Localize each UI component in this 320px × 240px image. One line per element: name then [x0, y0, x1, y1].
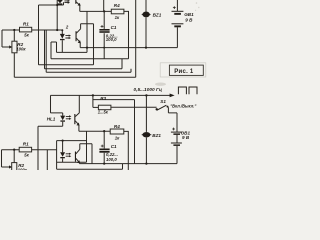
- wire U2 emitter drop x80.2: [79, 43, 81, 48]
- wire U4 emitter drop to bottom rail: [78, 162, 80, 165]
- optocoupler U4 LED triangle: [60, 152, 65, 157]
- wire battery GB1 top lead: [176, 0, 178, 11]
- wire vertical x87: [86, 11, 88, 52]
- capacitor C1 plus sign (bottom): [101, 145, 104, 148]
- svg-text:BZ1: BZ1: [152, 133, 161, 138]
- figure caption halo: [160, 63, 206, 77]
- wire left branch to R2 wiper (bottom): [2, 150, 10, 167]
- wire R2 top lead: [13, 30, 15, 41]
- wire main rail y30: [2, 29, 62, 31]
- svg-text:100,0: 100,0: [106, 37, 117, 42]
- svg-text:R4: R4: [114, 124, 120, 129]
- svg-text:0,5...1000 Гц: 0,5...1000 Гц: [134, 87, 162, 93]
- node junction BZ1 on rail y47.6: [145, 46, 147, 48]
- optocoupler U3 LED cathode bar: [60, 120, 65, 121]
- potentiometer R2: [12, 41, 17, 53]
- resistor R4: [111, 9, 124, 14]
- wire U1 LED cathode drop x57.2: [56, 0, 58, 30]
- wire BZ1 top lead: [145, 0, 147, 12]
- wire BZ1 top lead (bottom): [145, 95, 147, 131]
- optocoupler U1 LED remnant at crop: [57, 0, 63, 3]
- wire left branch to R2 wiper: [2, 30, 10, 47]
- wire vertical x44.5 from rail y30: [44, 30, 46, 69]
- wire rail y99.6: [93, 99, 135, 101]
- optocoupler U4 emitter diagonal with arrow: [76, 158, 79, 161]
- optocoupler U3 phototransistor base bar: [74, 114, 75, 124]
- optocoupler U4 phototransistor base bar: [75, 152, 76, 162]
- node junction x147 on output rail: [145, 94, 147, 96]
- svg-text:S1: S1: [160, 99, 166, 104]
- R2 wiper arrowhead: [9, 45, 12, 48]
- resistor R1: [20, 27, 32, 32]
- wire lowest nested rail y169.2: [57, 164, 123, 170]
- wire rail y5 feeding U1 LED: [39, 2, 64, 5]
- svg-text:100к: 100к: [18, 167, 28, 170]
- optocoupler U4 collector diagonal and loop: [76, 144, 92, 164]
- wire base stub y42 with jog x56.5: [51, 42, 57, 52]
- wire rail y11.4 emitter to R4: [80, 10, 112, 12]
- wire rail y140.6: [57, 140, 87, 142]
- wire bottom rail y163.6: [79, 163, 177, 165]
- wire outer rail y76: [14, 76, 135, 78]
- svg-text:BZ1: BZ1: [153, 12, 162, 17]
- node junction R2 top on rail y30: [13, 29, 15, 31]
- wire S1 to battery top: [168, 107, 177, 113]
- node junction x57.2 on rail y30: [56, 29, 58, 31]
- buzzer BZ1: [142, 12, 149, 18]
- node junction C1 top on rail y131.2: [103, 130, 105, 132]
- svg-text:100,0: 100,0: [106, 157, 117, 162]
- wire BZ1 bottom lead: [145, 17, 147, 47]
- battery GB1 cell1 short plate (bottom): [173, 133, 180, 135]
- optocoupler U1 emitter with arrow: [76, 2, 79, 5]
- buzzer BZ1 (bottom): [143, 132, 151, 137]
- wire bottom rail y47.6 to battery: [80, 47, 177, 49]
- svg-text:R4: R4: [114, 3, 120, 8]
- optocoupler U1 light arrows: [64, 1, 68, 3]
- wire vertical x48 from rail y30: [45, 30, 47, 72]
- svg-text:1к: 1к: [115, 135, 120, 140]
- node junction R2 top (bottom circuit): [13, 149, 15, 151]
- wire battery GB1 bottom lead: [176, 27, 178, 47]
- svg-text:100к: 100к: [16, 47, 26, 52]
- node junction U4 LED anode tap: [62, 140, 64, 142]
- wire nested rail y68.8 with link x122: [45, 59, 123, 69]
- battery GB1 plus sign (bottom): [172, 128, 175, 131]
- optocoupler U2 collector diagonal and top loop to x93.5: [76, 24, 93, 65]
- wire vertical x51: [50, 42, 52, 59]
- svg-text:1...5к: 1...5к: [98, 110, 109, 115]
- svg-text:"Вкл./Выкл.": "Вкл./Выкл.": [170, 103, 196, 108]
- node junction C1 lead on rail y47.6: [103, 47, 105, 49]
- wire corner x50.5 down to HL1 row: [51, 95, 63, 113]
- wire R3 left lead: [93, 106, 99, 108]
- battery GB1 cell2 long plate: [172, 23, 184, 25]
- R2 wiper arrowhead (bottom): [9, 165, 12, 168]
- wire C1 top lead: [103, 11, 105, 29]
- wire rail y52.4: [57, 51, 88, 53]
- svg-text:5к: 5к: [24, 32, 29, 37]
- resistor R4 (bottom): [110, 129, 124, 134]
- capacitor C1 plus sign: [101, 25, 104, 28]
- optocoupler U2 LED cathode bar: [60, 39, 65, 40]
- wire top output rail y95.4: [51, 94, 171, 96]
- wire R4 right lead and drop x129.4: [124, 131, 129, 170]
- node junction C1 top on rail y11.4: [103, 10, 105, 12]
- wire BZ1 bottom lead (bottom): [145, 138, 147, 164]
- faint print bleed smudge: [155, 83, 166, 86]
- optocoupler U4 LED cathode bar: [60, 157, 65, 158]
- optocoupler U2 emitter diagonal with arrow: [76, 38, 79, 42]
- scan noise specks: [196, 2, 198, 4]
- node junction LED anode on rail y30: [61, 29, 63, 31]
- node junction C1 bottom on bottom rail: [103, 162, 105, 164]
- wire vertical x135.7 full height: [135, 0, 137, 77]
- battery GB1 cell2 short plate: [174, 25, 181, 27]
- wire nested rail y58.8: [51, 58, 129, 60]
- wire collector riser x103.7 at crop: [103, 0, 105, 11]
- wire vertical x137: [134, 100, 136, 164]
- optocoupler U2 LED triangle: [60, 34, 65, 39]
- capacitor C1 plates: [99, 29, 109, 31]
- figure caption box Рис. 1: [169, 65, 203, 75]
- wire U2 LED anode from rail y30: [61, 30, 63, 34]
- wire R3 output drop x92.8: [92, 95, 94, 107]
- wire battery GB1 bottom lead (bottom): [176, 135, 178, 164]
- switch S1 blade: [157, 105, 167, 110]
- optocoupler U3 LED triangle: [60, 116, 65, 121]
- battery GB1 cell1 long plate (bottom): [171, 131, 182, 133]
- wire U3 LED cathode drop: [62, 122, 64, 127]
- node junction BZ1 on bottom rail: [145, 162, 147, 164]
- battery GB1 cell1 short plate: [174, 13, 181, 15]
- wire nested rail y72.3 with link x131: [46, 69, 131, 73]
- wire vertical x86.5: [86, 131, 88, 162]
- wire vertical x47.3: [46, 150, 48, 170]
- node junction x87 on rail y47.6: [86, 46, 88, 48]
- optocoupler U1 phototransistor base bar: [75, 0, 76, 4]
- resistor R3: [98, 105, 111, 110]
- wire R3 right lead to S1: [111, 106, 157, 108]
- svg-text:9 В: 9 В: [185, 17, 193, 22]
- optocoupler U3 collector diagonal and riser: [75, 95, 79, 116]
- svg-text:Рис. 1: Рис. 1: [174, 69, 194, 75]
- wire C1 top lead (bottom): [103, 131, 105, 148]
- wire U2 LED cathode drop: [61, 40, 63, 52]
- battery GB1 cell2 long plate (bottom): [171, 142, 182, 144]
- wire battery GB1 top lead (bottom): [176, 113, 178, 132]
- wire jog x56.6 from R1 row up to LED row: [56, 141, 58, 170]
- battery GB1 plus sign: [173, 6, 176, 9]
- wire U1 emitter drop x79.8: [79, 5, 81, 11]
- waveform pulse glyphs: [178, 87, 197, 94]
- wire main rail y149.7: [2, 149, 57, 151]
- capacitor C1 plates (bottom): [99, 149, 109, 151]
- wire R4 right lead and drop x128.5: [124, 11, 129, 58]
- battery GB1 cell1 long plate: [172, 10, 184, 12]
- wire U3 LED anode: [62, 113, 64, 116]
- node junction x57.2 on rail y5: [56, 4, 58, 6]
- potentiometer R2 (bottom, cropped): [12, 163, 17, 171]
- wire U3 emitter drop to rail y131.2: [79, 125, 110, 131]
- svg-text:C1: C1: [111, 144, 117, 149]
- svg-text:9 В: 9 В: [182, 135, 190, 140]
- wire R2 bottom lead down to outer rail: [13, 53, 15, 78]
- wire C1 bottom lead: [103, 33, 105, 59]
- svg-text:GB1: GB1: [184, 12, 194, 17]
- switch S1 right terminal: [167, 106, 169, 108]
- switch S1 pivot: [156, 108, 158, 110]
- resistor R1 (bottom): [19, 147, 31, 152]
- optocoupler U4 light arrows: [66, 154, 70, 156]
- wire R2 top lead (bottom): [13, 150, 15, 163]
- svg-text:R1: R1: [23, 22, 29, 27]
- node junction x93 on output rail: [92, 94, 94, 96]
- wire C1 bottom lead (bottom): [103, 153, 105, 164]
- wire rail y126.2 to corner x38: [38, 126, 63, 170]
- svg-text:1к: 1к: [115, 15, 120, 20]
- optocoupler U2 phototransistor base bar: [76, 31, 77, 41]
- svg-text:HL1: HL1: [47, 117, 56, 122]
- wire nested rail y64.8: [39, 64, 94, 66]
- wire U4 LED cathode drop: [62, 158, 64, 162]
- signal arrowhead rail end: [170, 94, 175, 98]
- svg-text:R3: R3: [100, 96, 106, 101]
- wire U4 LED anode drop: [62, 141, 64, 153]
- wire vertical x38.5: [38, 5, 40, 65]
- svg-text:C1: C1: [111, 25, 117, 30]
- optocoupler U3 light arrows: [66, 116, 70, 118]
- optocoupler U3 emitter diagonal with arrow: [75, 121, 78, 124]
- wire cathode rail y162.2: [57, 161, 87, 163]
- battery GB1 cell2 short plate (bottom): [173, 144, 180, 146]
- optocoupler U2 light arrows: [65, 36, 69, 38]
- svg-text:R1: R1: [23, 141, 29, 146]
